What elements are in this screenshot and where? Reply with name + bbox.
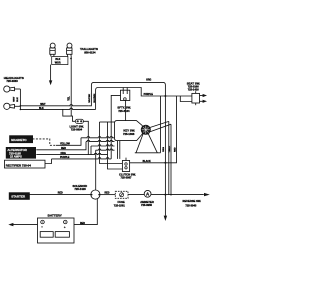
battery positive wire to solenoid [74, 199, 97, 225]
wire ammeter to reverse switch arrow [151, 194, 204, 196]
svg-text:WHT: WHT [13, 96, 15, 102]
battery box [38, 218, 75, 243]
taillights label [80, 47, 98, 55]
bundle stub wire at key top [100, 121, 115, 123]
clutch switch box [122, 158, 129, 172]
headlight bulb bottom [4, 103, 21, 109]
seat switch label [187, 81, 200, 91]
clutch wire to right [130, 162, 171, 164]
wire A: WHT riser to top bus and long right vertical [89, 82, 166, 215]
headlight bulb top [4, 86, 21, 92]
svg-text:725-0963: 725-0963 [6, 79, 18, 83]
reverse switch label [183, 199, 202, 207]
svg-text:YEL: YEL [68, 96, 70, 101]
rectifier wire hook [45, 159, 52, 164]
light switch [75, 119, 83, 123]
svg-text:725-1581: 725-1581 [114, 203, 126, 207]
branch from bus B down to seat switch lower pin [180, 96, 192, 102]
wire solenoid to fuse [100, 194, 115, 196]
solenoid feed vertical [95, 150, 97, 190]
svg-text:MAGNETO: MAGNETO [11, 138, 27, 142]
clutch switch label [119, 173, 136, 180]
fuse label [114, 200, 126, 207]
wire from light switch to bundle [83, 121, 88, 154]
svg-text:BLK: BLK [17, 97, 19, 102]
taillight bulb left [50, 43, 55, 56]
svg-text:ORG: ORG [163, 147, 165, 152]
svg-text:BATTERY: BATTERY [48, 213, 63, 217]
headlight connector vertical [19, 89, 21, 109]
wire RED [36, 140, 114, 150]
wire safety box left lead [111, 95, 120, 158]
wire ORG [36, 145, 114, 155]
fuse [115, 191, 128, 198]
svg-text:FUSE: FUSE [118, 200, 125, 204]
right vertical x171 [170, 124, 172, 194]
key switch lines to right verticals [150, 121, 172, 131]
ammeter label [140, 200, 154, 207]
light switch label [70, 124, 85, 131]
svg-text:REVERSE SW.: REVERSE SW. [183, 199, 202, 203]
svg-text:ORG: ORG [146, 80, 151, 82]
battery negative wire with left arrow [8, 223, 37, 226]
magneto dashed wire [33, 139, 57, 145]
arrowhead down on wire A [164, 216, 167, 221]
wire fuse to ammeter [128, 194, 144, 196]
seat switch [192, 91, 207, 105]
svg-text:RED: RED [61, 148, 66, 150]
bundle vertical x99.5 to clutch pin [100, 122, 123, 164]
svg-text:725-3067: 725-3067 [121, 176, 133, 180]
safety interlock box [121, 88, 130, 101]
taillight ground wire with down arrow [49, 65, 52, 86]
svg-text:956-0134: 956-0134 [84, 51, 96, 55]
headlights label [4, 76, 24, 83]
taillight bulb right [67, 43, 72, 56]
svg-text:15 AMPS: 15 AMPS [10, 155, 22, 159]
svg-text:+: + [64, 225, 66, 229]
key switch body [115, 121, 143, 141]
svg-text:725-0955: 725-0955 [141, 203, 153, 207]
svg-text:YELLOW: YELLOW [60, 143, 71, 145]
svg-text:BLK: BLK [55, 58, 60, 61]
svg-text:725-3164: 725-3164 [118, 109, 130, 113]
wire BLK headlight ground [20, 108, 95, 109]
starter wire to solenoid [29, 194, 91, 196]
svg-text:BLK: BLK [39, 108, 44, 110]
wire WHT headlight feed [20, 105, 88, 106]
wire B: BLK riser and second bus to seat switch [96, 88, 192, 110]
right vertical x168.8 [168, 121, 170, 194]
svg-text:ORG: ORG [61, 153, 66, 155]
svg-text:RECTIFIER 725-04: RECTIFIER 725-04 [6, 163, 31, 167]
svg-text:TAILLIGHTS: TAILLIGHTS [80, 47, 98, 51]
svg-text:RED: RED [58, 192, 63, 194]
wire PURPLE [52, 149, 115, 159]
svg-text:−: − [41, 225, 43, 229]
svg-text:RED: RED [175, 147, 177, 152]
alternator box [6, 148, 35, 159]
svg-text:725-3043: 725-3043 [185, 204, 197, 208]
branch T vertical x176.5 from bus B joining clutch wire [171, 96, 177, 163]
svg-text:RED: RED [80, 223, 85, 225]
svg-text:WHT/BK: WHT/BK [89, 93, 91, 102]
safety box label [117, 106, 131, 113]
svg-text:725-1396: 725-1396 [123, 132, 135, 136]
svg-text:725-0894: 725-0894 [71, 128, 83, 132]
solenoid label [73, 184, 88, 191]
key switch rotor circle [142, 126, 151, 135]
svg-text:STARTER: STARTER [11, 195, 26, 199]
rotated wire labels right bundle [163, 146, 176, 153]
svg-text:Y/BLK: Y/BLK [169, 146, 171, 153]
wire YELLOW [56, 137, 115, 146]
taillight wire label box BLK / WGR [52, 57, 68, 65]
svg-text:PURPLE: PURPLE [60, 157, 70, 159]
branch vertical x160.5 from bus B to key base [160, 96, 162, 153]
magneto box [10, 136, 33, 143]
wire to light switch [71, 116, 76, 121]
taillight YEL wire down [70, 57, 72, 117]
key body lower verticals [118, 141, 120, 159]
rectifier box [5, 160, 46, 168]
svg-text:WHT: WHT [40, 104, 46, 106]
key switch label [123, 129, 135, 136]
svg-text:725-1426: 725-1426 [188, 88, 200, 92]
junction dots bottom wire [164, 194, 172, 196]
solenoid [91, 190, 100, 199]
svg-text:725-1426: 725-1426 [74, 187, 86, 191]
junction clutch wire at wire A [164, 162, 166, 164]
bundle vertical x107.5 to clutch pin [108, 122, 123, 169]
wire safety box bottom lead [125, 101, 127, 121]
svg-text:PURPLE: PURPLE [144, 94, 154, 96]
junction dot bus B at wire A [164, 95, 166, 97]
svg-text:BLK/WH: BLK/WH [94, 93, 96, 102]
reverse switch arrowhead [204, 193, 210, 196]
svg-text:BLACK: BLACK [143, 160, 151, 163]
starter box [9, 193, 29, 200]
key switch fan lines to base [135, 133, 161, 153]
ammeter [144, 190, 151, 197]
svg-text:WGR: WGR [55, 62, 61, 65]
